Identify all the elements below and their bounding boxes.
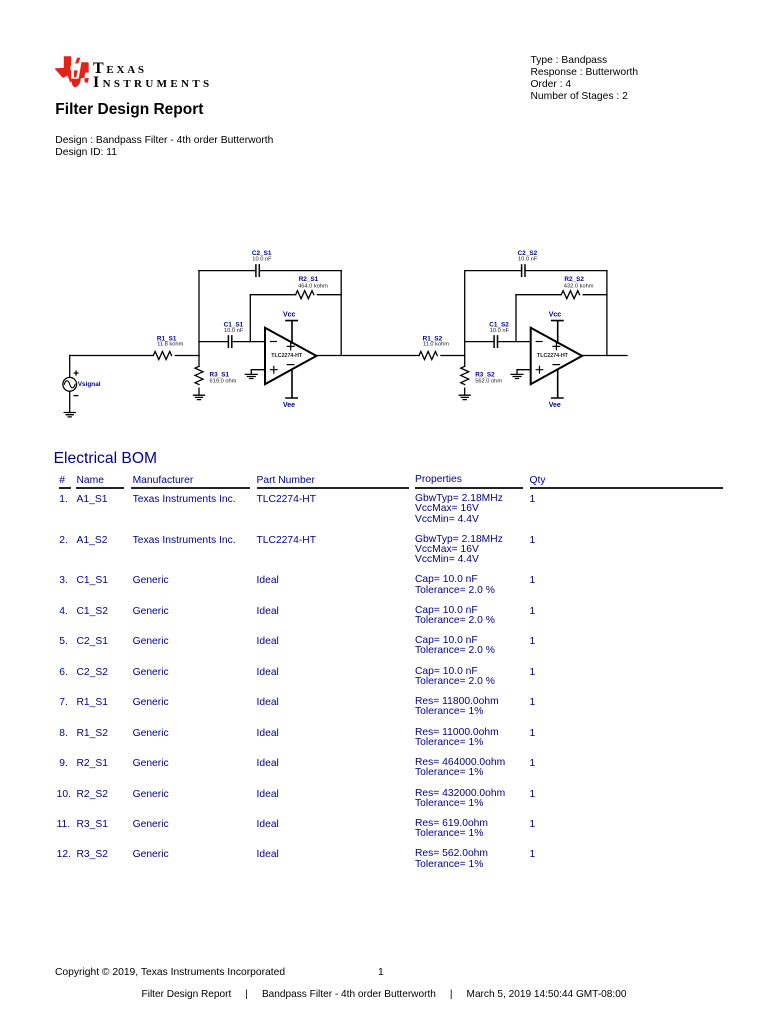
svg-text:Vsignal: Vsignal [78, 381, 101, 388]
svg-text:R3_S2: R3_S2 [475, 371, 495, 378]
svg-text:Vcc: Vcc [549, 311, 562, 318]
wire R3_S2 to ground [464, 388, 466, 395]
svg-text:432.0 kohm: 432.0 kohm [564, 283, 594, 289]
svg-text:TLC2274-HT: TLC2274-HT [271, 353, 303, 359]
ground (Vsignal) [64, 413, 75, 417]
wire node A1 to C2_S1 [199, 270, 256, 272]
BOM row 5 [0, 0, 768, 1]
wire op-amp U1 plus input to ground [251, 370, 265, 375]
wire C2_S1 to feedback node [259, 270, 341, 272]
svg-text:TLC2274-HT: TLC2274-HT [537, 353, 569, 359]
op-amp U1 positive supply plus [287, 343, 294, 350]
svg-text:11.0 kohm: 11.0 kohm [423, 342, 449, 348]
wire C1_S1 to op-amp U1 inverting input [232, 341, 265, 343]
svg-text:R2_S1: R2_S1 [299, 276, 319, 283]
ground (U2 plus input) [511, 374, 523, 378]
Vcc rail stage 1 [286, 321, 297, 343]
wire R2_S2 to feedback vertical [583, 294, 607, 296]
svg-text:Vcc: Vcc [283, 311, 296, 318]
TI logo bug [52, 52, 92, 92]
source Vsignal [63, 356, 78, 413]
capacitor C2_S2 [522, 265, 525, 276]
footer copyright [55, 967, 285, 978]
node A1 vertical wire [198, 271, 200, 356]
op-amp U2 inverting input minus [536, 341, 542, 343]
BOM row 2 [0, 0, 768, 1]
Vcc rail stage 2 [552, 321, 563, 343]
wire op-amp U2 output [582, 355, 627, 357]
BOM row 12 [0, 0, 768, 1]
BOM row 10 [0, 0, 768, 1]
svg-text:10.0 nF: 10.0 nF [252, 256, 272, 262]
wire R2_S1 left vertical [249, 295, 251, 342]
node A2 vertical wire [464, 271, 466, 356]
svg-text:10.0 nF: 10.0 nF [224, 328, 244, 334]
wire node A1 down to R3_S1 [198, 356, 200, 367]
wire R2_S2 left vertical [515, 295, 517, 342]
svg-text:R2_S2: R2_S2 [564, 276, 584, 283]
op-amp U2 negative supply minus [553, 364, 560, 366]
wire R2_S1 to feedback vertical [318, 294, 342, 296]
svg-text:Vee: Vee [283, 402, 295, 409]
TI logotype line 1 [93, 60, 147, 78]
BOM header [0, 0, 768, 1]
svg-text:10.0 nF: 10.0 nF [518, 256, 538, 262]
resistor R2_S2 [561, 291, 579, 299]
BOM row 8 [0, 0, 768, 1]
wire R1_S1 to node A1 [175, 355, 199, 357]
capacitor C1_S2 [494, 336, 497, 347]
op-amp U1 triangle [265, 328, 316, 385]
wire op-amp U1 output to stage 2 [316, 355, 419, 357]
wire C1_S2 to op-amp U2 inverting input [498, 341, 531, 343]
svg-text:562.0 ohm: 562.0 ohm [475, 379, 502, 385]
capacitor C1_S1 [228, 336, 231, 347]
Vee rail stage 1 [286, 369, 297, 398]
BOM row 11 [0, 0, 768, 1]
svg-text:619.0 ohm: 619.0 ohm [210, 379, 237, 385]
wire node A2 down to R3_S2 [464, 356, 466, 367]
BOM row 6 [0, 0, 768, 1]
BOM row 1 [0, 0, 768, 1]
svg-text:10.0 nF: 10.0 nF [490, 328, 510, 334]
resistor R2_S1 [296, 291, 314, 299]
op-amp U2 positive supply plus [553, 343, 560, 350]
feedback vertical wire stage 1 [340, 271, 342, 356]
BOM row 9 [0, 0, 768, 1]
op-amp U2 non-inverting input plus [536, 366, 543, 373]
TI logotype line 2 [93, 74, 212, 92]
Vee rail stage 2 [552, 369, 563, 398]
wire op-amp U2 plus input to ground [517, 370, 531, 375]
BOM row 7 [0, 0, 768, 1]
ground (R3_S1) [194, 395, 205, 399]
resistor R3_S1 [195, 366, 203, 384]
svg-text:464.0 kohm: 464.0 kohm [298, 283, 328, 289]
top-right info [531, 55, 639, 103]
feedback vertical wire stage 2 [606, 271, 608, 356]
wire R1_S2 to node A2 [441, 355, 465, 357]
op-amp U1 negative supply minus [287, 364, 294, 366]
op-amp U1 non-inverting input plus [271, 366, 278, 373]
wire R3_S1 to ground [198, 388, 200, 395]
resistor R3_S2 [461, 366, 469, 384]
wire to resistor R2_S2 [516, 294, 561, 296]
design info [55, 135, 273, 159]
report title [55, 101, 203, 119]
ground (R3_S2) [459, 395, 470, 399]
BOM row 4 [0, 0, 768, 1]
svg-text:Vee: Vee [549, 402, 561, 409]
BOM row 3 [0, 0, 768, 1]
op-amp U1 inverting input minus [271, 341, 277, 343]
ground (U1 plus input) [245, 374, 257, 378]
wire node A1 to C1_S1 [199, 341, 228, 343]
wire input to R1_S1 [70, 355, 154, 357]
op-amp U2 triangle [531, 328, 582, 385]
svg-text:R3_S1: R3_S1 [210, 371, 230, 378]
wire to resistor R2_S1 [250, 294, 295, 296]
wire node A2 to C2_S2 [465, 270, 522, 272]
resistor R1_S2 [419, 352, 437, 360]
wire node A2 to C1_S2 [465, 341, 494, 343]
capacitor C2_S1 [256, 265, 259, 276]
resistor R1_S1 [153, 352, 171, 360]
wire C2_S2 to feedback node [525, 270, 607, 272]
svg-text:11.8 kohm: 11.8 kohm [157, 342, 183, 348]
